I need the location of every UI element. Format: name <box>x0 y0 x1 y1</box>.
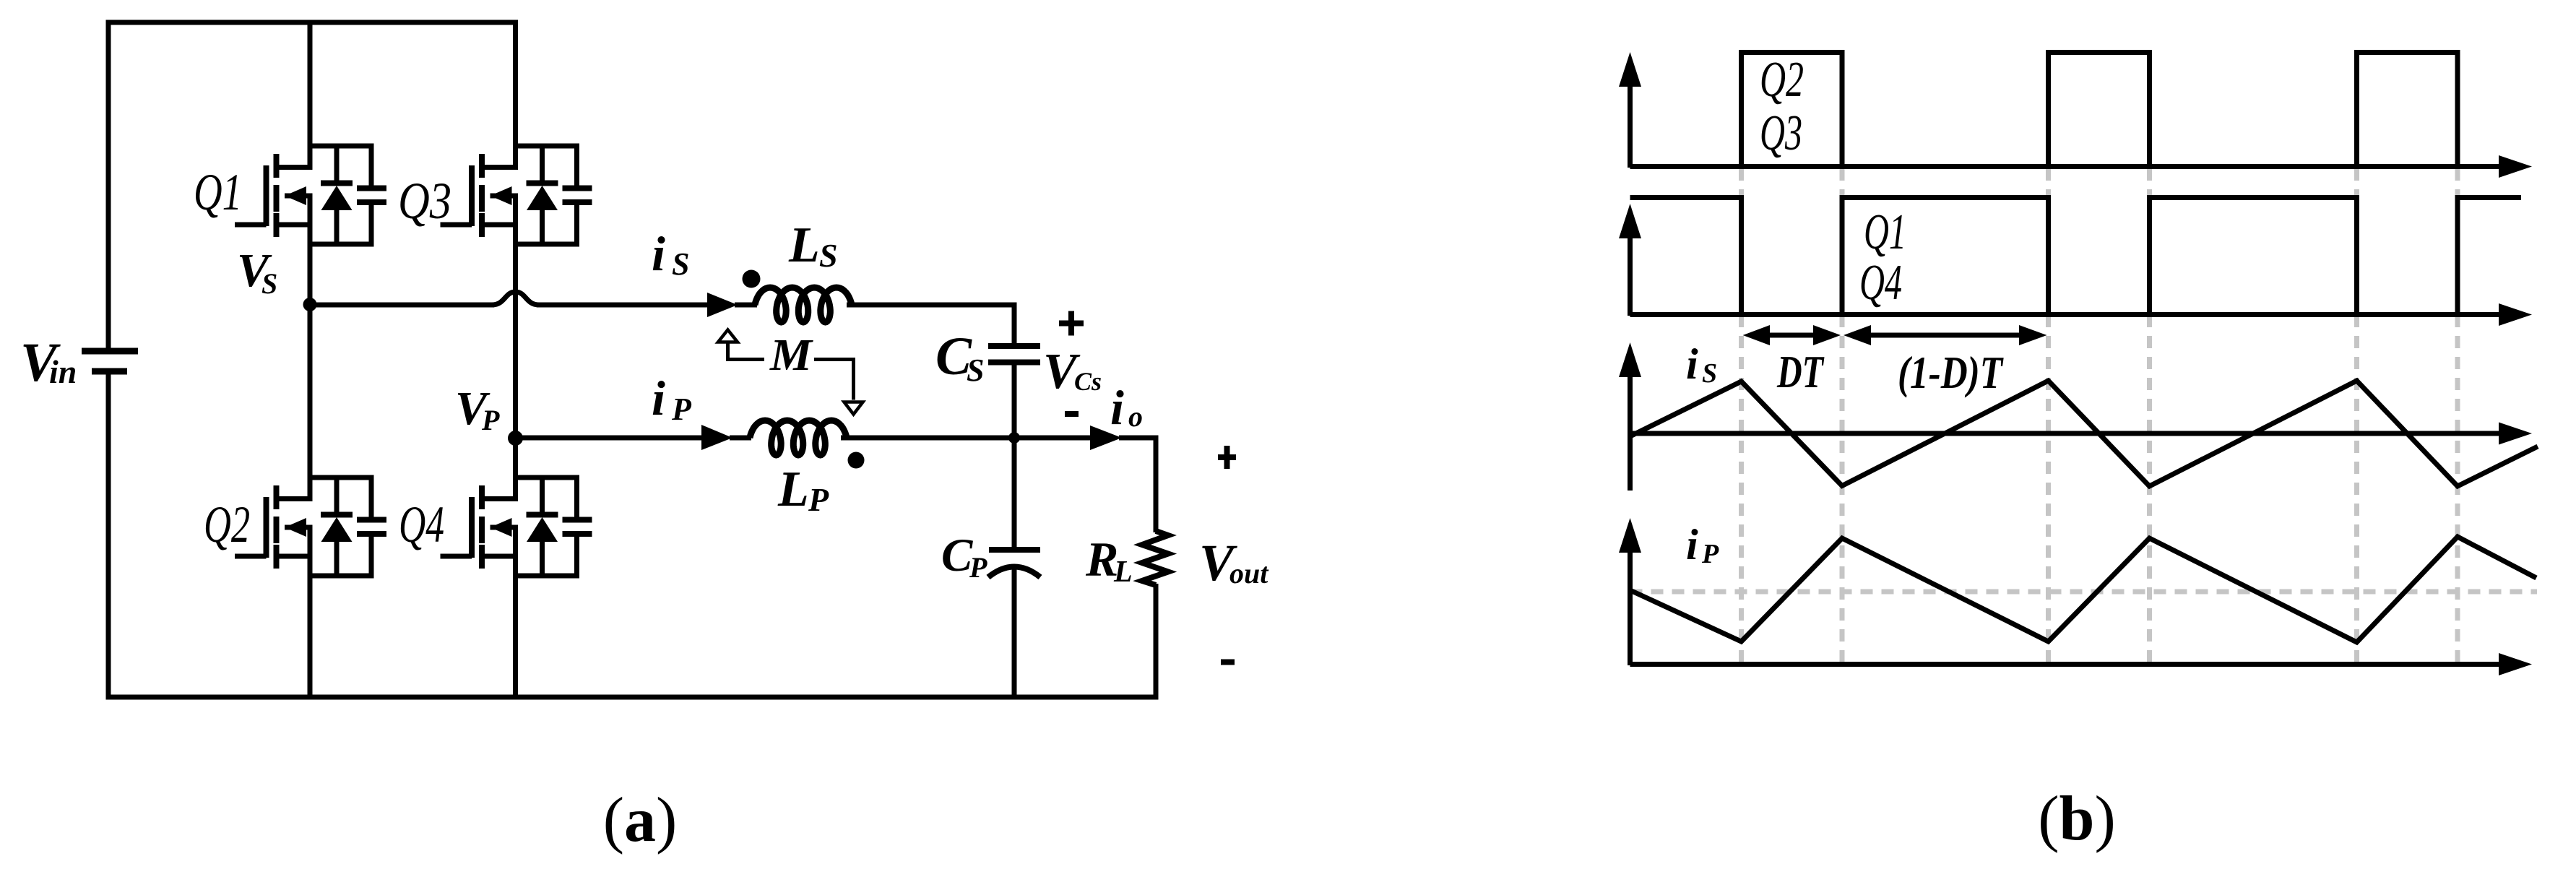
svg-text:Cs: Cs <box>1074 367 1102 396</box>
label M <box>769 331 813 380</box>
svg-text:S: S <box>672 246 689 282</box>
label LP <box>777 462 829 518</box>
label (a) <box>603 785 678 855</box>
polarity minus Vout <box>1221 660 1235 665</box>
coupling dot LP <box>848 452 865 469</box>
wire hop over right leg <box>492 292 539 305</box>
svg-text:i: i <box>1110 380 1124 435</box>
current arrow iS <box>707 293 757 317</box>
wire VS to hop <box>310 303 494 308</box>
svg-text:S: S <box>1702 358 1717 389</box>
svg-text:in: in <box>49 353 77 390</box>
voltage source Vin (battery) <box>82 20 138 700</box>
svg-text:i: i <box>652 371 665 425</box>
dashed zero level line of iP <box>1630 589 2538 595</box>
axis horizontal row3 (zero line) <box>1630 423 2533 445</box>
label VCs <box>1043 344 1102 399</box>
svg-text:P: P <box>671 392 692 427</box>
node VS (dot) <box>303 298 317 311</box>
wire hop to iS arrow <box>537 303 709 308</box>
svg-text:Q1: Q1 <box>1864 204 1906 260</box>
axis horizontal row4 <box>1630 653 2533 675</box>
wire left leg upper (top rail to Q1 drain) <box>308 22 313 170</box>
label Q1 (waveform) <box>1864 204 1906 260</box>
axis vertical row2 (Q1 Q4 gate) <box>1619 204 1641 316</box>
svg-text:DT: DT <box>1776 346 1825 397</box>
svg-text:P: P <box>481 404 500 436</box>
waveform iS <box>1630 381 2538 486</box>
svg-text:M: M <box>769 331 813 380</box>
waveform Q1 Q4 gate pulses <box>1630 198 2522 316</box>
svg-text:Q3: Q3 <box>398 172 451 230</box>
wire left leg lower (Q2 source to bottom rail) <box>308 525 313 698</box>
wire LS to CS corner <box>847 303 1017 308</box>
label DT <box>1776 346 1825 397</box>
label Q3 (waveform) <box>1760 105 1802 161</box>
svg-text:L: L <box>788 217 820 273</box>
svg-text:Q2: Q2 <box>204 496 250 553</box>
coupling dot LS <box>743 270 761 288</box>
svg-text:S: S <box>967 353 984 388</box>
label iP (waveform) <box>1686 521 1719 569</box>
svg-text:i: i <box>1686 521 1698 569</box>
axis horizontal row1 <box>1630 155 2533 178</box>
mutual coupling elbow right <box>814 358 854 400</box>
polarity plus Vout <box>1218 446 1236 469</box>
svg-text:(1-D)T: (1-D)T <box>1898 347 2004 398</box>
label Q3 <box>398 172 451 230</box>
label iS (waveform) <box>1686 340 1717 389</box>
label VS <box>237 244 277 300</box>
svg-text:C: C <box>941 530 973 582</box>
polarity minus VCs <box>1065 411 1079 417</box>
wire output top (corner to RL) <box>1154 436 1159 533</box>
wire right leg upper (top rail to Q3 drain) <box>513 20 518 170</box>
label Q4 (waveform) <box>1859 255 1902 311</box>
svg-text:Q4: Q4 <box>1859 255 1902 311</box>
svg-text:(a): (a) <box>603 785 678 855</box>
label iS <box>652 226 689 282</box>
label Q2 <box>204 496 250 553</box>
label Vin <box>20 332 77 393</box>
svg-text:i: i <box>1686 340 1698 388</box>
label CP <box>941 530 987 584</box>
mutual coupling arrow up (toward LS) <box>718 330 738 362</box>
label VP <box>455 382 500 436</box>
svg-text:S: S <box>262 267 277 300</box>
label Q1 <box>194 163 242 221</box>
waveform iP <box>1630 537 2537 642</box>
dashed timing gridlines <box>1742 168 2458 663</box>
svg-text:P: P <box>1701 539 1719 569</box>
svg-text:L: L <box>1113 556 1133 589</box>
svg-text:o: o <box>1128 400 1143 433</box>
transistor Q1 (MOSFET with body diode and capacitor) <box>235 144 386 247</box>
svg-text:Q1: Q1 <box>194 163 242 221</box>
svg-text:Q2: Q2 <box>1760 52 1804 108</box>
svg-text:Q3: Q3 <box>1760 105 1802 161</box>
transistor Q2 (MOSFET with body diode and capacitor) <box>235 475 386 579</box>
waveform Q2 Q3 gate pulses <box>1742 53 2458 170</box>
transistor Q3 (MOSFET with body diode and capacitor) <box>441 144 592 247</box>
svg-text:i: i <box>652 226 665 281</box>
wire VP to iP arrow <box>516 436 704 441</box>
label LS <box>788 217 838 274</box>
svg-text:S: S <box>819 237 838 274</box>
label (1-D)T <box>1898 347 2004 398</box>
axis horizontal row2 <box>1630 303 2533 326</box>
axis vertical row1 (Q2 Q3 gate) <box>1619 52 1641 168</box>
inductor LS <box>755 288 852 322</box>
capacitor CP <box>988 438 1040 700</box>
polarity plus VCs <box>1059 311 1084 336</box>
interval arrow DT <box>1743 325 1841 345</box>
wire LP to junction <box>841 436 1014 441</box>
label io <box>1110 380 1143 435</box>
svg-text:(b): (b) <box>2038 784 2116 854</box>
label Q2 (waveform) <box>1760 52 1804 108</box>
wire bottom rail <box>106 695 1159 700</box>
axis vertical row4 (iP) <box>1619 518 1641 665</box>
svg-text:Q4: Q4 <box>399 496 444 553</box>
wire right leg lower (Q4 source to bottom rail) <box>513 525 518 698</box>
wire right leg middle (Q3 source to Q4 drain through node VP) <box>513 194 518 502</box>
axis vertical row3 (iS) <box>1619 342 1641 491</box>
label (b) <box>2038 784 2116 854</box>
svg-text:out: out <box>1229 557 1269 589</box>
svg-text:P: P <box>808 481 829 518</box>
resistor RL <box>1142 531 1168 585</box>
capacitor CS <box>988 303 1040 441</box>
label Vout <box>1199 534 1269 592</box>
label RL <box>1085 532 1133 589</box>
mutual coupling elbow left <box>726 358 764 361</box>
mutual coupling arrow down (toward LP) <box>844 402 863 415</box>
label iP <box>652 371 692 427</box>
wire RL to bottom rail <box>1154 584 1159 700</box>
svg-text:P: P <box>969 551 987 584</box>
interval arrow (1-D)T <box>1844 325 2047 345</box>
junction node CS/CP/output (dot) <box>1008 432 1020 444</box>
label Q4 <box>399 496 444 553</box>
node VP (dot) <box>508 431 523 446</box>
label CS <box>935 327 984 388</box>
current arrow io <box>1090 425 1159 450</box>
svg-text:L: L <box>777 462 809 517</box>
inductor LP <box>750 420 847 455</box>
wire top rail <box>106 20 519 25</box>
current arrow iP <box>701 425 751 450</box>
wire junction to io arrow <box>1014 436 1092 441</box>
transistor Q4 (MOSFET with body diode and capacitor) <box>441 475 592 579</box>
wire left leg middle (Q1 source to Q2 drain through node VS) <box>308 194 313 502</box>
